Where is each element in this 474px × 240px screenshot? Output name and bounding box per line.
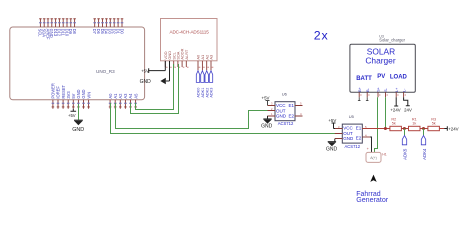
svg-text:Generator: Generator: [356, 196, 389, 204]
connector ADK3: [209, 71, 213, 98]
resistor R1 1k: [409, 118, 421, 131]
wire A5 to ADC SCL: [136, 64, 174, 110]
power flag +5V on UNO 5V pin: [68, 109, 76, 118]
ground flag GND at ADC GND pin: [140, 61, 170, 85]
svg-text:VCC: VCC: [276, 103, 286, 108]
svg-text:B+: B+: [358, 87, 362, 92]
solar charger U3 body: [350, 35, 415, 93]
connector ADK4: [421, 135, 427, 160]
ground flag GND at U6 GND: [261, 116, 273, 130]
arduino UNO_R3 module body: [10, 27, 145, 100]
generator connector H1: [366, 147, 387, 162]
svg-text:ADK3: ADK3: [210, 88, 214, 98]
node junction PV-/E1: [384, 127, 387, 130]
current sensor U5 ACS712 body: [342, 114, 362, 149]
wire A1 to U6 OUT: [116, 103, 273, 129]
mouse cursor: [370, 175, 376, 182]
svg-text:E1: E1: [356, 126, 362, 131]
svg-text:E2: E2: [288, 114, 294, 119]
svg-text:E2: E2: [356, 136, 362, 141]
svg-text:GND: GND: [326, 146, 338, 152]
wire R1 to R3: [420, 128, 428, 130]
svg-text:ADK0: ADK0: [197, 88, 201, 98]
svg-text:ADK5: ADK5: [402, 148, 407, 160]
current sensor U6 ACS712 body: [275, 92, 295, 126]
svg-text:U6: U6: [282, 92, 288, 97]
U5 pin stubs: [335, 125, 370, 139]
svg-text:H1: H1: [382, 152, 387, 156]
svg-text:GND: GND: [261, 124, 273, 130]
svg-text:Solar_charger: Solar_charger: [379, 38, 405, 43]
BATT unconnected stubs: [358, 97, 369, 100]
net flag +24V on LOAD+: [390, 97, 400, 112]
svg-text:D8: D8: [72, 29, 77, 35]
U6 pin stubs: [268, 102, 303, 117]
svg-text:ACS712: ACS712: [344, 144, 360, 149]
wire node to connector ADK5: [404, 129, 406, 136]
svg-text:S+: S+: [377, 87, 381, 92]
connector ADK0: [196, 71, 200, 98]
UNO bottom power header pins: [51, 83, 92, 109]
ADC bottom pins VDD GND SCL SDA ADDR ALRT: [163, 48, 189, 67]
svg-text:GND: GND: [72, 127, 84, 133]
svg-text:VCC: VCC: [343, 126, 353, 131]
svg-text:ACS712: ACS712: [278, 121, 294, 126]
ground flag GND below UNO: [72, 120, 84, 133]
svg-text:+24V: +24V: [448, 126, 458, 131]
svg-text:GND: GND: [343, 136, 354, 141]
svg-text:BATT: BATT: [356, 76, 372, 82]
net flag 24V on LOAD-: [404, 97, 412, 112]
resistor R2 5k: [390, 118, 402, 131]
wire U5 E2 to H1: [370, 137, 372, 152]
ADC bottom pins A0..A3: [196, 54, 214, 70]
svg-text:A3: A3: [209, 55, 214, 60]
svg-text:GND: GND: [276, 114, 287, 119]
svg-text:+24V: +24V: [390, 107, 400, 112]
UNO top-left header pins SCL..D8: [38, 18, 77, 40]
svg-text:D0: D0: [119, 29, 124, 35]
svg-text:24V: 24V: [404, 107, 412, 112]
wire R2 to R1: [401, 128, 408, 130]
svg-text:UNO_R3: UNO_R3: [96, 69, 115, 74]
svg-text:A5: A5: [133, 93, 138, 99]
svg-text:ADK4: ADK4: [422, 148, 427, 160]
svg-text:A(+): A(+): [370, 156, 377, 160]
svg-text:+5V: +5V: [68, 113, 76, 118]
connector ADK2: [205, 71, 209, 98]
wire R3 to +24V flag: [439, 128, 444, 130]
connector ADK1: [201, 71, 205, 98]
wire node to connector ADK4: [423, 129, 425, 136]
svg-text:GND: GND: [140, 79, 152, 85]
svg-text:+5V: +5V: [141, 68, 149, 73]
svg-text:L+: L+: [395, 88, 399, 92]
svg-text:PV: PV: [377, 74, 385, 80]
svg-text:+5V: +5V: [328, 118, 336, 123]
wire A4 to ADC SDA: [131, 64, 179, 114]
resistor R3 5k: [428, 118, 440, 131]
UNO top-right header pins D7..D0: [92, 18, 124, 34]
wire UNO GND pin down: [78, 104, 80, 120]
wire PV- down to node: [385, 97, 387, 128]
svg-text:5k: 5k: [432, 121, 436, 125]
svg-text:LOAD: LOAD: [390, 75, 408, 81]
svg-text:5k: 5k: [392, 121, 396, 125]
svg-text:E1: E1: [288, 103, 294, 108]
svg-text:Charger: Charger: [365, 56, 395, 66]
svg-text:VIN: VIN: [86, 92, 91, 99]
power flag +5V at U5 VCC: [328, 118, 336, 128]
svg-text:2x: 2x: [314, 29, 329, 43]
node junction ADK4 tap: [422, 127, 425, 130]
power flag +5V at ADC VDD: [141, 61, 165, 73]
svg-text:+5V: +5V: [262, 96, 270, 101]
ADC module ADC-4CH-ADS1115 body: [161, 19, 218, 61]
node junction ADK5 tap: [403, 127, 406, 130]
svg-text:ADC-4CH-ADS1115: ADC-4CH-ADS1115: [170, 30, 210, 35]
svg-text:1k: 1k: [412, 121, 416, 125]
wire U5 E1 to R2: [362, 128, 390, 130]
svg-text:ALRT: ALRT: [184, 49, 189, 59]
wire A0 to U5 OUT: [111, 103, 340, 134]
svg-text:U5: U5: [349, 114, 355, 119]
power flag +5V at U6 VCC: [262, 96, 270, 106]
ground flag GND at U5 GND: [326, 139, 338, 153]
connector ADK5: [402, 135, 407, 160]
net flag +24V right: [444, 126, 458, 131]
wire PV+ down to generator H1: [375, 97, 378, 152]
UNO bottom analog header pins A0..A5: [108, 93, 139, 109]
label Fahrrad Generator: [356, 191, 389, 204]
U3 pin stubs: [359, 92, 406, 97]
